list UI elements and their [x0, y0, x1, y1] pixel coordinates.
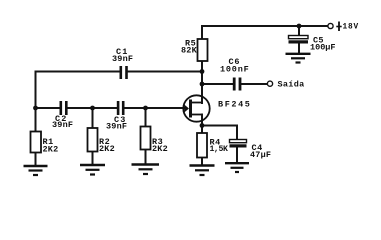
ground R2	[80, 165, 105, 175]
ground R4	[190, 166, 215, 176]
wire C1 horizontal	[36, 71, 120, 73]
capacitor C1	[112, 47, 133, 79]
wire C6 horizontal	[202, 83, 233, 85]
node source junction	[200, 123, 205, 128]
wire source vertical	[201, 115, 203, 134]
terminal +18V	[328, 22, 359, 32]
wire gate line	[36, 107, 60, 109]
capacitor C5	[289, 36, 336, 53]
svg-text:100µF: 100µF	[310, 43, 336, 53]
wire drain vertical	[201, 61, 203, 103]
svg-text:82K: 82K	[181, 46, 198, 56]
capacitor C4	[230, 140, 272, 161]
wire C5 leads	[298, 26, 300, 36]
wire top supply rail	[202, 25, 328, 27]
capacitor C2	[52, 101, 73, 130]
svg-text:18V: 18V	[343, 24, 359, 32]
resistor R2	[88, 128, 115, 154]
svg-text:47µF: 47µF	[250, 150, 271, 160]
wire C4 to ground	[236, 148, 238, 163]
resistor R4	[197, 133, 228, 158]
wire left rail	[35, 72, 37, 109]
svg-text:39nF: 39nF	[106, 122, 127, 132]
resistor R3	[141, 127, 168, 155]
ground C5	[286, 54, 311, 63]
svg-text:39nF: 39nF	[52, 120, 73, 130]
wire R3 leads	[145, 108, 147, 127]
wire R2 leads	[92, 108, 94, 128]
svg-text:2K2: 2K2	[43, 145, 59, 155]
wire R5 drop	[201, 26, 203, 39]
svg-text:2K2: 2K2	[99, 144, 115, 154]
capacitor C3	[106, 101, 127, 132]
svg-text:1,5K: 1,5K	[210, 145, 229, 154]
node gate left rail	[33, 106, 38, 111]
ground R3	[132, 165, 160, 175]
node gate R2	[90, 106, 95, 111]
resistor R5	[181, 39, 208, 62]
node gate R3	[143, 106, 148, 111]
svg-text:BF245: BF245	[218, 100, 252, 110]
wire source to C4	[202, 125, 237, 127]
wire R1 leads	[35, 108, 37, 132]
capacitor C6	[220, 57, 250, 91]
node drain junction C6	[200, 82, 205, 87]
wire R4 to ground	[201, 158, 203, 165]
svg-text:39nF: 39nF	[112, 54, 133, 64]
svg-text:2K2: 2K2	[152, 144, 168, 154]
ground C4	[225, 163, 249, 172]
ground R1	[24, 166, 48, 175]
node supply junction C5	[297, 24, 302, 29]
resistor R1	[31, 132, 59, 155]
transistor Q1 BF245	[183, 95, 251, 121]
terminal Saída	[267, 80, 304, 90]
svg-text:100nF: 100nF	[220, 65, 250, 75]
svg-text:Saída: Saída	[278, 80, 305, 90]
node drain junction C1	[200, 69, 205, 74]
